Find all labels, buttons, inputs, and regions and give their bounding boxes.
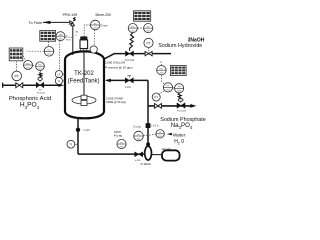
agitator blades ellipse (72, 96, 96, 104)
suction valve V-202 (135, 152, 143, 157)
svg-text:5 rpm: 5 rpm (101, 24, 107, 27)
tank dome nozzle instrument circle (90, 46, 97, 53)
svg-text:FCV-203: FCV-203 (177, 110, 186, 112)
agitator hub upper (81, 95, 87, 99)
gate valve product (155, 104, 162, 109)
NaOH feed pipe (114, 53, 171, 55)
svg-text:40 psig: 40 psig (114, 135, 123, 138)
svg-text:TK-202: TK-202 (74, 71, 94, 77)
agitator hub lower (81, 101, 87, 106)
control valve FCV-201 actuator (38, 71, 42, 83)
tank bottom outlet pipe (77, 117, 79, 154)
instrument FIC-203 (157, 66, 166, 75)
signal dash PI-205 to PI-206 (144, 134, 148, 136)
signal dash mixer circle to motor (84, 25, 90, 36)
svg-text:PCS: PCS (66, 39, 71, 41)
signal dash LAH to vent pipe (65, 36, 72, 38)
svg-text:LIC: LIC (47, 50, 51, 52)
hand valve V-201 (125, 76, 133, 83)
svg-text:H2 0: H2 0 (174, 139, 184, 145)
instrument LIC-201 (44, 47, 54, 57)
signal dash between FIC-202 and FY-202 (138, 27, 144, 29)
instrument PT product (152, 93, 160, 101)
signal dash box to FIC (23, 56, 26, 61)
outlet valve dot (76, 128, 80, 132)
actuator spring FCV-202 (130, 33, 134, 51)
signal dash PT to FY-203 (158, 91, 164, 95)
NaOH pipe diagonal to tank dome (104, 54, 115, 60)
pump discharge flange dot (146, 142, 150, 146)
arrowhead into tank right side (105, 79, 111, 83)
svg-text:FIC: FIC (131, 26, 135, 28)
phosphoric acid feed pipe (3, 84, 59, 86)
tank TK-202 body (65, 51, 104, 118)
svg-text:CODE STAMP: CODE STAMP (106, 96, 123, 100)
DCS shared display box product (170, 66, 186, 76)
DCS shared display box top-left (40, 31, 56, 42)
instrument FIC-201 (24, 61, 33, 70)
DCS shared display box left (9, 48, 23, 61)
control valve FCV-203 (177, 93, 185, 108)
arrowhead into tank (58, 84, 64, 87)
svg-text:10,000 GALLON: 10,000 GALLON (103, 60, 125, 64)
check valve on riser (146, 122, 151, 129)
svg-text:10 psig: 10 psig (133, 126, 141, 129)
svg-text:TI: TI (70, 143, 73, 147)
svg-text:V-201: V-201 (125, 86, 132, 89)
mixer motor housing on tank top (80, 36, 88, 51)
instrument FV-203 (175, 84, 184, 93)
mixer instrument circle SC (90, 20, 100, 30)
svg-text:Sodium Hydroxide: Sodium Hydroxide (158, 43, 202, 49)
flare arrowhead (43, 21, 51, 24)
signal dash FY-203 to FV-203 (173, 87, 175, 89)
svg-text:V-203: V-203 (83, 129, 90, 132)
flare line (43, 21, 73, 23)
pump suction pipe (78, 153, 145, 155)
svg-text:220 volt: 220 volt (162, 148, 171, 151)
svg-text:To Flare: To Flare (29, 21, 42, 25)
svg-text:1-1/2 in: 1-1/2 in (151, 125, 160, 128)
control valve FCV-201 body (36, 82, 44, 88)
signal dash NaOH line to FIC-203 (160, 61, 162, 65)
signal dash PT NaOH to pipe (148, 48, 150, 52)
instrument FY-203 (163, 83, 172, 92)
svg-text:FCV-201: FCV-201 (37, 93, 46, 95)
instrument PI-204 (117, 139, 126, 148)
instrument PT NaOH (144, 38, 153, 47)
svg-text:PT: PT (154, 95, 158, 99)
svg-text:Water: Water (173, 133, 186, 138)
signal dash FIC-203 to FY-203 (161, 75, 164, 84)
instrument TI (67, 140, 78, 148)
relief valve PRV-199 (70, 17, 76, 25)
svg-text:V-202: V-202 (135, 160, 141, 162)
instrument LI (55, 77, 65, 84)
signal dash PT to box (16, 61, 18, 70)
DCS shared display box top-middle (134, 11, 151, 21)
instrument PI-206 (156, 130, 164, 139)
motor 220 volt (152, 150, 180, 160)
signal dash LAH to LT (58, 41, 61, 70)
control valve FCV-202 (126, 51, 134, 56)
agitator shaft (83, 51, 85, 96)
svg-text:P-202A: P-202A (141, 162, 152, 166)
gate valve NaOH (145, 51, 152, 55)
instrument FY-202 (144, 24, 153, 33)
instrument PI-205 (134, 131, 144, 141)
svg-text:ASME @ 50 psig: ASME @ 50 psig (106, 100, 126, 104)
svg-text:LT: LT (57, 72, 60, 76)
phosphoric acid pipe origin tick (2, 83, 4, 88)
svg-text:NPSH: NPSH (114, 131, 121, 134)
svg-text:PRV-199: PRV-199 (63, 13, 78, 17)
instrument FIC-202 (128, 24, 137, 33)
signal dash mixer circle to dome nozzle (93, 30, 95, 46)
PRV vent pipe (72, 23, 74, 55)
water arrowhead (167, 133, 172, 136)
riser pipe recirc to pump (147, 80, 149, 143)
svg-text:LAH: LAH (58, 34, 63, 37)
instrument PT phosphoric (12, 71, 22, 81)
product header pipe (148, 105, 192, 107)
recirculation pipe horizontal (107, 79, 149, 81)
svg-text:PT: PT (146, 41, 150, 45)
gate valve phosphoric (16, 83, 23, 88)
svg-text:FIC: FIC (160, 69, 164, 71)
arrowhead product out (190, 104, 196, 108)
svg-text:(Feed Tank): (Feed Tank) (68, 78, 100, 84)
svg-text:Na3PO4: Na3PO4 (171, 122, 193, 130)
svg-text:PT: PT (15, 74, 19, 78)
svg-text:FIC: FIC (26, 63, 30, 65)
svg-text:Mixer-200: Mixer-200 (96, 13, 112, 17)
signal dash box to LIC (47, 42, 50, 47)
instrument LT (55, 71, 65, 78)
instrument LAH-201 (56, 32, 65, 41)
svg-text:LI: LI (58, 79, 61, 83)
pump P-202A casing (145, 146, 152, 160)
svg-text:SC: SC (94, 23, 97, 25)
svg-text:FCV-202: FCV-202 (125, 59, 135, 62)
svg-text:1/4 reserve @ 20 gpm: 1/4 reserve @ 20 gpm (103, 65, 133, 69)
signal dash LIC to left cluster (27, 50, 44, 52)
signal dash FIC to FY (33, 64, 36, 66)
instrument FY-201 (36, 62, 45, 71)
